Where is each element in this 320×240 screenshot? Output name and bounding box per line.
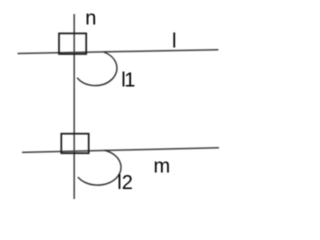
- line m: [22, 148, 219, 153]
- svg-text:n: n: [85, 8, 96, 30]
- svg-text:1: 1: [124, 70, 135, 92]
- angle arc for angle 2: [78, 150, 121, 185]
- right-angle square at intersection of l and n: [59, 33, 86, 54]
- svg-text:l2: l2: [117, 172, 133, 194]
- svg-text:l: l: [172, 30, 176, 52]
- angle arc for angle 1: [77, 52, 117, 85]
- right-angle square at intersection of m and n: [61, 134, 88, 154]
- line l: [18, 50, 219, 54]
- transversal line n: [73, 14, 75, 199]
- svg-text:m: m: [154, 156, 171, 178]
